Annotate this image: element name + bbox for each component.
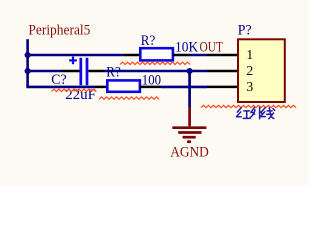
label 红外线 (drawn strokes) [236, 107, 274, 119]
error squiggle under R1 [120, 62, 190, 64]
ground bar 4 [187, 140, 191, 143]
char 线 [261, 108, 275, 119]
resistor R2 pin 2 [140, 86, 161, 89]
error squiggle under R2 [99, 97, 159, 99]
pin 1 of connector P? [207, 54, 238, 57]
svg-text:OUT: OUT [200, 39, 224, 55]
svg-text:P?: P? [238, 23, 252, 39]
svg-text:3: 3 [246, 80, 253, 95]
pin 2 of connector P? [207, 70, 238, 73]
wire: ground stem vertical [188, 71, 191, 107]
wire: net3 horizontal segment from bus [26, 86, 94, 89]
capacitor C1 pin - [88, 70, 104, 73]
wire: net2 horizontal left segment [26, 70, 60, 73]
error squiggle under C1 [52, 89, 97, 91]
char 红 [236, 108, 250, 119]
resistor R1 pin 1 [124, 54, 140, 57]
svg-text:AGND: AGND [170, 145, 209, 161]
node junction dot C (net2/ground stem) [187, 68, 193, 74]
capacitor C1 plus sign [69, 57, 77, 65]
resistor R1 pin 2 [173, 54, 190, 57]
svg-text:10K: 10K [175, 39, 198, 55]
svg-text:1: 1 [246, 48, 253, 63]
svg-text:R?: R? [106, 64, 121, 80]
ground AGND stem [188, 107, 191, 126]
char 外 [251, 107, 263, 119]
wire: net1 horizontal left segment [26, 54, 124, 57]
wire: net3 right segment [161, 86, 207, 89]
wire: left vertical bus [26, 39, 29, 87]
node junction dot A (bus/net1) [25, 52, 31, 58]
wire: net2 middle segment [104, 70, 207, 73]
capacitor C1 left plate [79, 58, 82, 85]
resistor R1 body [140, 48, 173, 60]
resistor R2 body [107, 80, 140, 91]
svg-text:C?: C? [51, 72, 67, 88]
pin 3 of connector P? [207, 86, 238, 89]
connector P? body [238, 39, 285, 102]
ground bar 3 [183, 136, 196, 139]
resistor R2 pin 1 [95, 86, 108, 89]
ground bar 1 [172, 126, 206, 129]
svg-text:100: 100 [142, 72, 161, 88]
ground bar 2 [178, 131, 201, 134]
capacitor C1 right plate [86, 58, 89, 85]
capacitor C1 pin + [61, 70, 80, 73]
error squiggle under connector P? [201, 105, 296, 107]
wire: net1 right segment to connector [190, 54, 207, 57]
svg-text:R?: R? [141, 33, 156, 49]
node junction dot B (bus/net2) [25, 68, 31, 74]
svg-text:Peripheral5: Peripheral5 [28, 23, 90, 39]
svg-text:2: 2 [246, 64, 253, 79]
